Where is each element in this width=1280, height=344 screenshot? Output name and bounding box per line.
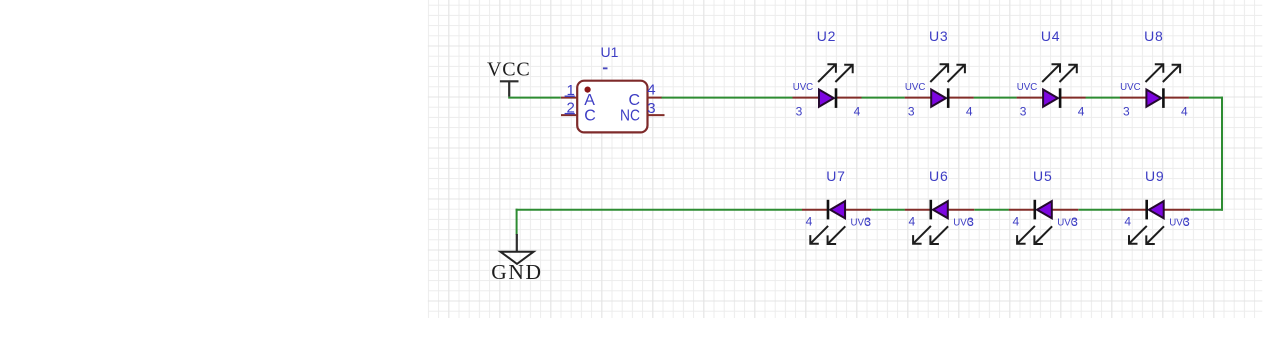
connector U1 body xyxy=(577,81,647,133)
cathode bar xyxy=(835,88,838,108)
pin 4 stub xyxy=(1121,209,1147,211)
anode triangle xyxy=(933,201,948,218)
svg-text:NC: NC xyxy=(620,107,640,124)
wire right vertical xyxy=(1221,97,1223,211)
svg-text:UVC: UVC xyxy=(1120,81,1141,93)
svg-text:3: 3 xyxy=(864,215,871,229)
svg-text:3: 3 xyxy=(967,215,974,229)
anode triangle xyxy=(1043,90,1058,107)
cathode bar xyxy=(1145,200,1148,220)
cathode bar xyxy=(827,200,830,220)
svg-text:4: 4 xyxy=(1124,215,1131,229)
pin 3 stub xyxy=(1164,209,1191,211)
svg-text:U5: U5 xyxy=(1033,168,1053,184)
svg-text:4: 4 xyxy=(1181,105,1188,119)
svg-text:C: C xyxy=(584,107,596,124)
svg-text:VCC: VCC xyxy=(487,59,531,81)
svg-text:4: 4 xyxy=(647,82,655,99)
emission arrows xyxy=(1042,64,1077,82)
pin 3 stub xyxy=(1017,97,1044,99)
emission arrows xyxy=(930,64,965,82)
svg-text:3: 3 xyxy=(647,100,655,117)
svg-text:3: 3 xyxy=(796,105,803,119)
pin 3 stub xyxy=(793,97,820,99)
emission arrows xyxy=(818,64,853,82)
svg-text:4: 4 xyxy=(806,215,813,229)
U1 pin number 1 xyxy=(565,82,575,99)
svg-text:U4: U4 xyxy=(1041,28,1061,44)
wire VCC to U1 pin 1 xyxy=(508,97,561,99)
svg-text:UVC: UVC xyxy=(905,81,926,93)
wire U9 to right corner xyxy=(1190,209,1223,211)
anode triangle xyxy=(931,90,946,107)
LED U3 xyxy=(905,28,974,119)
cathode bar xyxy=(1034,200,1037,220)
cathode bar xyxy=(947,88,950,108)
emission arrows xyxy=(1017,226,1052,244)
LED U8 xyxy=(1120,28,1189,119)
anode triangle xyxy=(830,201,845,218)
pin 3 stub xyxy=(948,209,975,211)
cathode bar xyxy=(1162,88,1165,108)
svg-text:3: 3 xyxy=(1071,215,1078,229)
anode triangle xyxy=(1146,90,1161,107)
svg-text:U7: U7 xyxy=(826,168,846,184)
svg-text:GND: GND xyxy=(491,260,542,284)
U1 pin number 2 xyxy=(565,100,575,117)
wire U4 to U8 xyxy=(1086,97,1121,99)
svg-text:UVC: UVC xyxy=(793,81,814,93)
U1 pin 4 stub xyxy=(647,97,663,99)
svg-text:4: 4 xyxy=(966,105,973,119)
svg-text:3: 3 xyxy=(908,105,915,119)
svg-text:U8: U8 xyxy=(1144,28,1164,44)
LED U2 xyxy=(793,28,862,119)
svg-text:U3: U3 xyxy=(929,28,949,44)
wire U8 to right corner xyxy=(1189,97,1223,99)
svg-text:3: 3 xyxy=(1123,105,1130,119)
svg-text:4: 4 xyxy=(1012,215,1019,229)
LED U5 xyxy=(1009,168,1079,244)
emission arrows xyxy=(913,226,948,244)
pin 3 stub xyxy=(1052,209,1079,211)
LED U9 xyxy=(1121,168,1191,244)
svg-text:4: 4 xyxy=(908,215,915,229)
wire U1 pin 4 to U2 xyxy=(662,97,793,99)
svg-text:UVC: UVC xyxy=(1017,81,1038,93)
U1 pin-1 dot xyxy=(585,87,591,93)
pin 3 stub xyxy=(845,209,872,211)
U1 pin 2 stub xyxy=(561,114,578,116)
pin 4 stub xyxy=(905,209,931,211)
pin 4 stub xyxy=(836,97,862,99)
svg-text:4: 4 xyxy=(1078,105,1085,119)
pin 3 stub xyxy=(905,97,932,99)
LED U6 xyxy=(905,168,975,244)
wire to GND xyxy=(516,209,518,235)
value label "-" of U1 xyxy=(603,67,608,69)
wire U5 to U9 xyxy=(1078,209,1120,211)
svg-text:U2: U2 xyxy=(817,28,837,44)
U1 pin 1 stub xyxy=(561,97,578,99)
svg-text:A: A xyxy=(584,92,595,109)
pin 4 stub xyxy=(802,209,828,211)
wire GND corner to U7 xyxy=(516,209,803,211)
svg-text:3: 3 xyxy=(1183,215,1190,229)
svg-text:4: 4 xyxy=(854,105,861,119)
emission arrows xyxy=(810,226,845,244)
svg-text:U9: U9 xyxy=(1145,168,1165,184)
LED U4 xyxy=(1017,28,1086,119)
ground GND xyxy=(491,234,542,284)
anode triangle xyxy=(819,90,834,107)
pin 4 stub xyxy=(1163,97,1189,99)
emission arrows xyxy=(1146,64,1181,82)
power flag VCC xyxy=(487,59,531,97)
U1 pin 3 stub xyxy=(647,114,665,116)
svg-text:3: 3 xyxy=(1020,105,1027,119)
svg-text:U1: U1 xyxy=(601,44,619,60)
wire U2 to U3 xyxy=(861,97,904,99)
anode triangle xyxy=(1037,201,1052,218)
emission arrows xyxy=(1129,226,1164,244)
pin 4 stub xyxy=(1060,97,1086,99)
cathode bar xyxy=(1059,88,1062,108)
pin 4 stub xyxy=(1009,209,1035,211)
wire U6 to U5 xyxy=(974,209,1009,211)
pin 3 stub xyxy=(1120,97,1147,99)
anode triangle xyxy=(1149,201,1164,218)
wire U3 to U4 xyxy=(974,97,1017,99)
pin 4 stub xyxy=(948,97,974,99)
svg-text:U6: U6 xyxy=(929,168,949,184)
svg-text:C: C xyxy=(628,92,640,109)
LED U7 xyxy=(802,168,872,244)
cathode bar xyxy=(929,200,932,220)
wire U7 to U6 xyxy=(872,209,905,211)
